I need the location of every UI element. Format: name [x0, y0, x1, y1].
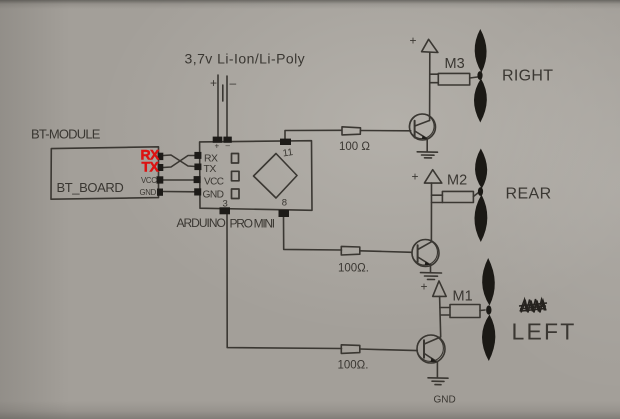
- svg-text:3,7v Li-Ion/Li-Poly: 3,7v Li-Ion/Li-Poly: [185, 51, 306, 67]
- svg-text:+: +: [410, 34, 417, 48]
- svg-text:REAR: REAR: [506, 186, 552, 203]
- svg-text:100Ω.: 100Ω.: [338, 360, 369, 372]
- svg-text:TX: TX: [204, 164, 217, 175]
- svg-text:3: 3: [223, 199, 228, 210]
- svg-text:RIGHT: RIGHT: [502, 68, 553, 85]
- svg-text:+: +: [215, 142, 220, 151]
- svg-text:GND: GND: [434, 395, 456, 406]
- svg-text:GND: GND: [140, 188, 157, 197]
- svg-text:100 Ω: 100 Ω: [339, 141, 370, 153]
- svg-text:+: +: [210, 76, 217, 90]
- svg-text:M1: M1: [453, 289, 473, 305]
- svg-text:8: 8: [282, 198, 287, 209]
- svg-text:+: +: [412, 170, 419, 184]
- svg-text:–: –: [230, 76, 237, 90]
- svg-text:RX: RX: [204, 154, 218, 165]
- svg-text:VCC: VCC: [141, 176, 157, 185]
- svg-text:TX: TX: [142, 159, 160, 175]
- svg-text:+: +: [421, 280, 428, 294]
- svg-text:ARDUINO: ARDUINO: [177, 216, 226, 230]
- svg-text:11: 11: [282, 147, 294, 159]
- svg-text:BT_BOARD: BT_BOARD: [57, 180, 124, 195]
- svg-text:–: –: [226, 141, 231, 150]
- svg-text:M2: M2: [447, 173, 467, 189]
- svg-text:LEFT: LEFT: [512, 319, 577, 345]
- svg-text:BT-MODULE: BT-MODULE: [31, 127, 101, 142]
- svg-text:VCC: VCC: [204, 177, 224, 188]
- svg-text:100Ω.: 100Ω.: [338, 263, 369, 275]
- svg-text:PRO MINI: PRO MINI: [230, 217, 275, 231]
- svg-text:GND: GND: [203, 190, 224, 201]
- svg-text:M3: M3: [445, 56, 465, 72]
